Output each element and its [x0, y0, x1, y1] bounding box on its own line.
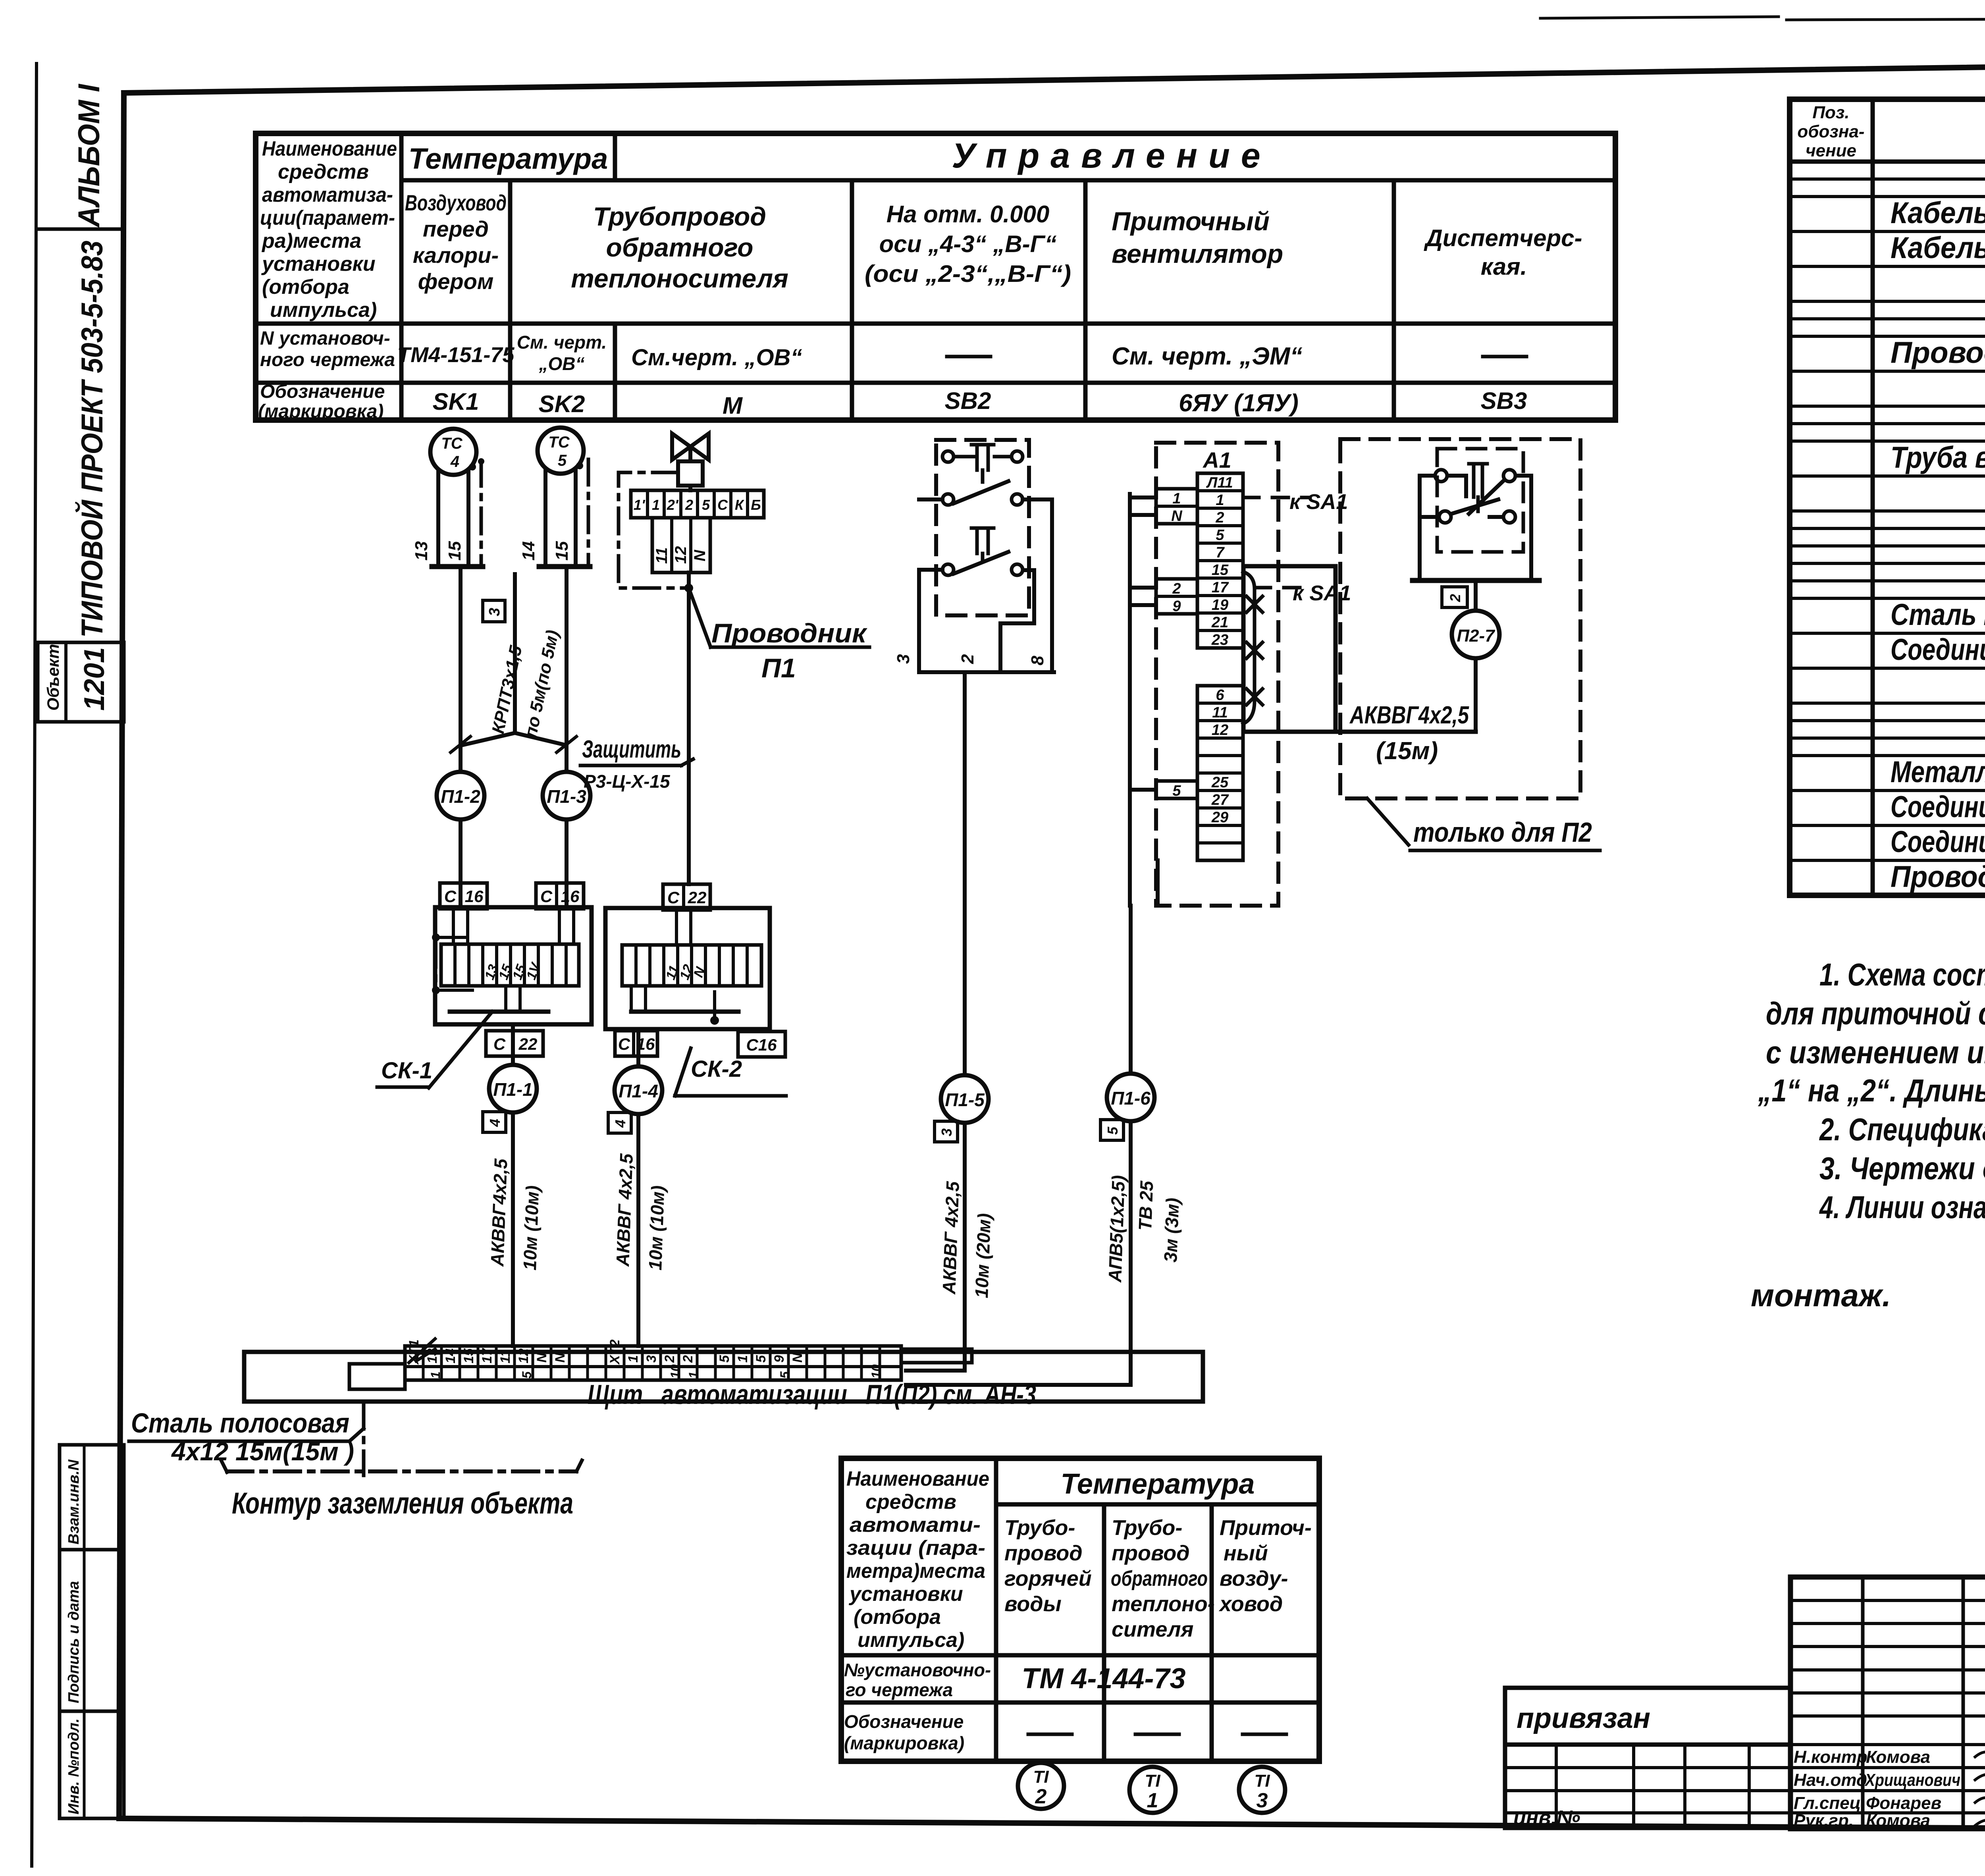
svg-text:11: 11	[653, 547, 671, 564]
svg-text:15: 15	[461, 1348, 476, 1363]
cable P1-1 to panel	[483, 1112, 543, 1346]
svg-text:Трубо-: Трубо-	[1004, 1516, 1075, 1540]
svg-text:ции(парамет-: ции(парамет-	[260, 206, 395, 229]
svg-text:П1-6: П1-6	[1111, 1088, 1151, 1109]
svg-text:3: 3	[894, 654, 913, 664]
svg-text:N установоч-: N установоч-	[260, 328, 390, 349]
svg-text:СК-1: СК-1	[381, 1058, 432, 1084]
svg-text:АЛЬБОМ I: АЛЬБОМ I	[72, 83, 106, 228]
svg-text:С: С	[618, 1035, 630, 1053]
svg-text:22: 22	[688, 888, 707, 907]
wires P1-2/P1-3 down to SK-1	[461, 819, 567, 907]
switch SB2 dashed box	[936, 440, 1029, 615]
svg-text:зации (пара-: зации (пара-	[846, 1537, 985, 1560]
svg-text:ТИПОВОЙ ПРОЕКТ 503-5-5.83: ТИПОВОЙ ПРОЕКТ 503-5-5.83	[75, 241, 109, 638]
cable P1-4 to panel	[608, 1112, 668, 1346]
svg-text:1: 1	[1216, 492, 1224, 509]
svg-text:П1-2: П1-2	[441, 786, 480, 807]
svg-text:2: 2	[958, 654, 977, 664]
svg-text:П1-4: П1-4	[619, 1081, 658, 1101]
svg-text:АКВВГ 4х2,5: АКВВГ 4х2,5	[939, 1180, 963, 1295]
svg-text:Комова: Комова	[1866, 1747, 1930, 1767]
svg-text:2. Спецификация дана для 2-: 2. Спецификация дана для 2-х систем.	[1819, 1112, 1985, 1147]
svg-text:9: 9	[1172, 598, 1181, 615]
tag C22 below SK-1	[486, 1031, 543, 1056]
svg-text:См. черт. „ЭМ“: См. черт. „ЭМ“	[1112, 343, 1303, 370]
cable KRPT vertical with Y split	[462, 574, 567, 745]
wire SB2 to P1-5	[963, 672, 967, 1075]
svg-text:К: К	[735, 497, 745, 513]
svg-text:2': 2'	[667, 497, 679, 513]
svg-text:обратного: обратного	[606, 233, 754, 262]
svg-text:Сталь полосовая 4х12 ГОСТ 103-: Сталь полосовая 4х12 ГОСТ 103-76	[1891, 598, 1985, 632]
svg-text:Температура: Температура	[1061, 1468, 1255, 1500]
svg-text:ТI: ТI	[1254, 1771, 1270, 1791]
svg-text:22: 22	[518, 1035, 538, 1053]
svg-text:11: 11	[498, 1350, 513, 1363]
svg-text:1: 1	[735, 1355, 750, 1363]
svg-text:15: 15	[1212, 562, 1229, 578]
svg-text:П1: П1	[761, 653, 796, 683]
svg-text:калори-: калори-	[413, 243, 499, 268]
svg-text:2: 2	[685, 497, 693, 513]
svg-text:(отбора: (отбора	[262, 276, 349, 299]
label tolko dlya P2	[1367, 798, 1600, 850]
svg-text:провод: провод	[1112, 1541, 1190, 1565]
A1 terminal strip lower	[1156, 686, 1243, 860]
svg-text:4: 4	[450, 453, 459, 470]
svg-text:ного чертежа: ного чертежа	[260, 349, 395, 370]
svg-text:5: 5	[520, 1371, 534, 1379]
svg-text:2: 2	[1172, 580, 1181, 597]
SB2 external wiring	[894, 499, 1054, 672]
svg-text:П1-1: П1-1	[493, 1079, 533, 1100]
svg-text:Проводник: Проводник	[711, 618, 868, 648]
svg-text:Кабель КРПТ3х1,5 ГОСТ 13497-: Кабель КРПТ3х1,5 ГОСТ 13497-77	[1891, 196, 1985, 230]
svg-text:чение: чение	[1806, 141, 1856, 160]
svg-text:Диспетчерс-: Диспетчерс-	[1423, 225, 1582, 251]
sensor TC4	[412, 429, 484, 567]
svg-text:Соединитель СМП-15х3/4“ТУ36.11: Соединитель СМП-15х3/4“ТУ36.1125-75	[1891, 825, 1985, 859]
svg-text:10: 10	[869, 1364, 883, 1379]
valve terminal strip	[631, 490, 764, 573]
svg-text:4. Линии означают:: 4. Линии означают:	[1819, 1190, 1985, 1225]
svg-text:Комова: Комова	[1866, 1811, 1930, 1830]
svg-text:АКВВГ4х2,5: АКВВГ4х2,5	[1349, 702, 1469, 729]
label SK-1 with leader	[377, 1012, 492, 1088]
svg-text:С: С	[717, 497, 728, 513]
svg-text:2: 2	[1447, 594, 1463, 602]
svg-text:Трубопровод: Трубопровод	[593, 202, 766, 231]
svg-text:Наименование: Наименование	[262, 137, 397, 160]
svg-text:3. Чертежи для справок: А-4: 3. Чертежи для справок: А-4	[1819, 1151, 1985, 1186]
label SK-2 with leader	[675, 1048, 786, 1096]
svg-text:Трубо-: Трубо-	[1112, 1516, 1182, 1540]
svg-text:(15м): (15м)	[1376, 737, 1438, 765]
privyazan box	[1505, 1688, 1790, 1745]
svg-text:15: 15	[552, 541, 572, 561]
svg-text:SB2: SB2	[945, 388, 991, 414]
svg-text:Обозначение: Обозначение	[260, 381, 385, 402]
svg-text:Подпись и дата: Подпись и дата	[66, 1581, 82, 1703]
svg-text:10м (10м): 10м (10м)	[645, 1185, 668, 1271]
cable P1-6 to panel	[906, 1120, 1183, 1385]
svg-text:Объект: Объект	[44, 644, 62, 711]
svg-text:горячей: горячей	[1004, 1567, 1092, 1591]
svg-text:Проводник П-1 ТУ36.1276-76: Проводник П-1 ТУ36.1276-76	[1891, 860, 1985, 894]
svg-text:ТС: ТС	[441, 435, 463, 452]
dashed link to k SA1 lower	[1255, 581, 1351, 605]
svg-text:ТI: ТI	[1145, 1771, 1160, 1791]
svg-text:5: 5	[1104, 1126, 1121, 1135]
svg-text:3: 3	[486, 608, 503, 616]
svg-text:воды: воды	[1004, 1592, 1062, 1616]
margin divider under ALBOM	[37, 228, 124, 231]
marker circle P1-3	[543, 772, 590, 819]
svg-text:Температура: Температура	[409, 142, 608, 175]
svg-text:13: 13	[412, 541, 431, 561]
svg-text:Сталь полосовая: Сталь полосовая	[131, 1407, 349, 1438]
marker circle P1-6	[1107, 1074, 1154, 1121]
svg-text:для приточной системы П2. С: для приточной системы П2. Схема аналогич…	[1766, 996, 1985, 1031]
svg-text:Наименование: Наименование	[846, 1467, 989, 1490]
svg-text:См. черт.: См. черт.	[517, 332, 607, 353]
svg-text:ра)места: ра)места	[261, 229, 361, 253]
demontage loop with X marks	[1243, 572, 1262, 724]
cable AKVVG 4x2.5 (15m)	[1336, 702, 1476, 765]
svg-text:6ЯУ (1ЯУ): 6ЯУ (1ЯУ)	[1179, 389, 1299, 417]
svg-text:Хрищанович: Хрищанович	[1864, 1770, 1960, 1790]
wire A1 to P1-6	[1129, 906, 1133, 1074]
svg-text:11: 11	[1212, 704, 1228, 721]
svg-text:перед: перед	[423, 216, 489, 241]
svg-text:ховод: ховод	[1218, 1592, 1283, 1616]
svg-text:Б: Б	[751, 497, 761, 513]
svg-text:С: С	[667, 888, 680, 907]
svg-text:кая.: кая.	[1481, 253, 1527, 280]
P2 switch	[1413, 449, 1539, 580]
svg-text:N: N	[691, 549, 709, 561]
svg-text:17: 17	[1212, 579, 1229, 596]
A1 left bus wire	[1130, 494, 1158, 906]
BOTTOM CENTER TABLE	[841, 1458, 1319, 1761]
svg-text:3: 3	[1257, 1789, 1268, 1812]
svg-text:1. Схема составленa для при: 1. Схема составленa для приточной систем…	[1819, 957, 1985, 992]
marker circle P1-5	[941, 1075, 989, 1123]
sheet edge top segments	[1540, 17, 1779, 18]
svg-text:оси „4-3“ „В-Г“: оси „4-3“ „В-Г“	[879, 231, 1057, 257]
svg-text:теплоно-: теплоно-	[1112, 1592, 1215, 1616]
svg-text:автомати-: автомати-	[850, 1514, 981, 1537]
svg-text:С: С	[540, 887, 553, 906]
junction box SK-1	[432, 907, 592, 1024]
svg-text:21: 21	[1211, 614, 1228, 631]
svg-text:Поз.: Поз.	[1812, 103, 1849, 122]
svg-text:27: 27	[1211, 792, 1229, 808]
wire P1 line valve to SK-2	[687, 573, 691, 884]
svg-text:2: 2	[680, 1355, 696, 1363]
svg-text:С: С	[493, 1035, 506, 1053]
svg-text:го чертежа: го чертежа	[846, 1679, 953, 1700]
svg-text:14: 14	[443, 1348, 458, 1363]
svg-text:Кабель АКВВГ ГОСТ 1508 78: Кабель АКВВГ ГОСТ 1508 78	[1891, 231, 1985, 265]
controller A1 dashed box	[1156, 443, 1278, 906]
svg-text:АКВВГ 4х2,5: АКВВГ 4х2,5	[612, 1153, 637, 1267]
svg-text:возду-: возду-	[1220, 1567, 1288, 1591]
svg-text:Фонарев: Фонарев	[1866, 1793, 1941, 1813]
svg-text:Р3-Ц-Х-15: Р3-Ц-Х-15	[584, 771, 671, 792]
svg-text:„ОВ“: „ОВ“	[539, 353, 585, 374]
svg-text:Защитить: Защитить	[582, 736, 681, 763]
svg-text:SK2: SK2	[539, 391, 585, 417]
tag C16 on P1-2 wire	[440, 883, 487, 909]
svg-text:Воздуховод: Воздуховод	[405, 190, 507, 215]
svg-text:инв.№: инв.№	[1513, 1807, 1580, 1830]
squiggle signatures	[1975, 1752, 1985, 1830]
svg-text:ХТ2: ХТ2	[607, 1340, 622, 1365]
svg-text:АПВ5(1х2,5): АПВ5(1х2,5)	[1104, 1175, 1129, 1283]
svg-text:С16: С16	[746, 1035, 777, 1054]
svg-text:5: 5	[717, 1355, 732, 1363]
svg-text:монтаж.: монтаж.	[1751, 1278, 1891, 1313]
svg-text:На отм. 0.000: На отм. 0.000	[887, 201, 1049, 228]
svg-text:5: 5	[1216, 527, 1224, 544]
svg-text:обозна-: обозна-	[1797, 122, 1864, 141]
svg-text:фером: фером	[418, 269, 494, 294]
RIGHT SPECIFICATION TABLE	[1790, 99, 1985, 895]
svg-text:Соединитель СМ т-15х20ТУ36.112: Соединитель СМ т-15х20ТУ36.1125-75	[1891, 790, 1985, 824]
TOP-LEFT SIGNAL TABLE	[256, 133, 1615, 422]
svg-text:16: 16	[561, 887, 580, 906]
svg-text:5: 5	[1172, 783, 1181, 799]
svg-text:(маркировка): (маркировка)	[844, 1733, 964, 1753]
svg-text:5: 5	[558, 452, 567, 469]
marker circle P1-4	[615, 1066, 662, 1114]
LEFT MARGIN COLUMN	[37, 83, 124, 1818]
signatures grid	[1790, 1577, 1985, 1829]
svg-text:1201: 1201	[79, 647, 110, 711]
svg-text:провод: провод	[1004, 1541, 1083, 1565]
valve shield dash-dot loop	[619, 472, 693, 592]
svg-text:Приточ-: Приточ-	[1220, 1516, 1312, 1540]
svg-text:1: 1	[652, 497, 660, 513]
svg-text:Гл.спец: Гл.спец	[1794, 1793, 1861, 1813]
svg-text:Рук.гр.: Рук.гр.	[1794, 1811, 1854, 1830]
TITLE BLOCK	[1505, 1577, 1985, 1832]
svg-text:19: 19	[1212, 597, 1228, 613]
svg-text:ТМ4-151-75: ТМ4-151-75	[397, 343, 515, 367]
svg-text:5: 5	[754, 1355, 769, 1363]
svg-text:SB3: SB3	[1481, 388, 1527, 414]
sheet edge left line	[32, 64, 37, 1866]
label Zashchitit	[580, 736, 693, 792]
svg-text:1: 1	[428, 1371, 443, 1379]
svg-text:Л11: Л11	[1206, 474, 1233, 491]
A1 terminal strip upper	[1156, 473, 1243, 648]
svg-text:12: 12	[672, 546, 690, 564]
svg-text:4: 4	[487, 1119, 503, 1127]
TI instrument circles	[1018, 1763, 1285, 1813]
svg-text:4х12 15м(15м ): 4х12 15м(15м )	[171, 1437, 354, 1466]
svg-text:5: 5	[778, 1371, 792, 1379]
panel terminal strip XT1/XT2	[349, 1339, 972, 1389]
svg-text:Приточный: Приточный	[1112, 206, 1270, 236]
svg-text:только для П2: только для П2	[1413, 817, 1592, 848]
svg-text:с изменением индекса в мар: с изменением индекса в маркировке кабеля…	[1766, 1035, 1985, 1070]
svg-text:установки: установки	[261, 253, 376, 276]
svg-text:М: М	[723, 392, 743, 419]
dashed link to k SA1 upper	[1243, 490, 1348, 514]
valve P1	[672, 434, 709, 490]
wire SK-1 to P1-1	[511, 1024, 515, 1065]
sensor drop wires	[451, 567, 576, 772]
svg-text:теплоносителя: теплоносителя	[571, 264, 788, 293]
svg-text:4: 4	[612, 1120, 628, 1128]
svg-text:3м (3м): 3м (3м)	[1160, 1197, 1183, 1263]
drawing frame border	[124, 59, 1985, 93]
svg-text:12: 12	[516, 1348, 531, 1363]
svg-text:N: N	[1171, 508, 1183, 524]
svg-text:Взам.инв.N: Взам.инв.N	[66, 1459, 82, 1544]
svg-text:средств: средств	[278, 160, 369, 183]
sensor TC5	[519, 428, 590, 567]
junction box at A1 output	[1243, 566, 1336, 732]
svg-text:1': 1'	[634, 497, 646, 513]
svg-text:23: 23	[1211, 632, 1228, 648]
tag C16 below SK-2	[615, 1031, 657, 1056]
svg-text:8: 8	[1028, 656, 1047, 665]
svg-text:10м (10м): 10м (10м)	[519, 1185, 543, 1271]
svg-text:Провод АПВ ГОСТ 6323-79: Провод АПВ ГОСТ 6323-79	[1891, 336, 1985, 370]
svg-text:10: 10	[668, 1364, 682, 1379]
svg-text:Металлорукав Р3-Ц-Х-15 ТУ22-21: Металлорукав Р3-Ц-Х-15 ТУ22-2173-71	[1891, 755, 1985, 789]
svg-text:См.черт. „ОВ“: См.черт. „ОВ“	[631, 345, 802, 370]
svg-text:сителя: сителя	[1112, 1618, 1193, 1641]
svg-text:обратного: обратного	[1111, 1567, 1208, 1591]
svg-text:А1: А1	[1202, 447, 1231, 472]
svg-text:автоматиза-: автоматиза-	[262, 183, 393, 206]
svg-text:N: N	[790, 1352, 805, 1363]
NOTES TEXT BLOCK	[1751, 957, 1985, 1313]
svg-text:2: 2	[1035, 1785, 1047, 1808]
svg-text:N: N	[553, 1352, 568, 1363]
svg-text:1: 1	[1172, 490, 1181, 507]
svg-text:Щит автоматизации П1(П2) с: Щит автоматизации П1(П2) см. АН-3	[588, 1379, 1036, 1410]
svg-text:N: N	[534, 1352, 549, 1363]
svg-text:10м (20м): 10м (20м)	[971, 1213, 994, 1298]
svg-text:Труба винипластовая МН 1427-61: Труба винипластовая МН 1427-61	[1891, 441, 1985, 474]
svg-text:Н.контр: Н.контр	[1794, 1747, 1867, 1767]
svg-text:Контур заземления объекта: Контур заземления объекта	[232, 1487, 573, 1520]
ground strip labels	[129, 1404, 364, 1475]
svg-text:вентилятор: вентилятор	[1112, 239, 1283, 268]
svg-text:6: 6	[1216, 687, 1224, 704]
P2-7 marker with tag 2	[1442, 580, 1499, 732]
svg-text:№установочно-: №установочно-	[844, 1660, 991, 1680]
svg-text:ТВ 25: ТВ 25	[1135, 1180, 1157, 1231]
P2 only dashed box	[1340, 439, 1580, 798]
object 1201 box	[38, 642, 124, 722]
svg-text:Управление: Управление	[952, 136, 1271, 175]
svg-text:7: 7	[1216, 544, 1225, 561]
svg-text:установки: установки	[848, 1583, 963, 1606]
svg-text:16: 16	[465, 887, 484, 906]
stamp boxes bottom left	[60, 1445, 124, 1550]
automation panel box	[244, 1352, 1203, 1410]
tag C16 right below SK-2	[738, 1032, 785, 1057]
tag C22 on P1 wire	[663, 884, 710, 910]
svg-text:14: 14	[519, 541, 538, 561]
svg-text:импульса): импульса)	[270, 299, 377, 322]
svg-text:9: 9	[772, 1355, 787, 1363]
svg-text:5: 5	[702, 497, 710, 513]
svg-text:15: 15	[445, 541, 464, 561]
svg-text:12: 12	[1212, 722, 1228, 738]
svg-text:П1-5: П1-5	[945, 1089, 985, 1110]
junction box SK-2	[605, 908, 770, 1029]
svg-text:метра)места: метра)места	[846, 1560, 985, 1583]
svg-text:С: С	[444, 887, 457, 906]
svg-text:СК-2: СК-2	[691, 1056, 742, 1082]
svg-text:к SA1: к SA1	[1293, 581, 1351, 605]
ground contour dash-dot line	[222, 1460, 582, 1520]
svg-text:3: 3	[644, 1355, 659, 1363]
svg-text:(оси „2-3“,„В-Г“): (оси „2-3“,„В-Г“)	[865, 260, 1071, 287]
svg-text:Нач.отд: Нач.отд	[1794, 1770, 1867, 1790]
label Provodnik P1	[689, 588, 869, 683]
svg-text:средств: средств	[865, 1490, 956, 1514]
svg-text:импульса): импульса)	[858, 1629, 964, 1652]
svg-text:2: 2	[1215, 509, 1224, 526]
svg-text:Инв. №подл.: Инв. №подл.	[66, 1718, 82, 1814]
svg-text:(маркировка): (маркировка)	[258, 401, 384, 422]
svg-text:3: 3	[939, 1128, 955, 1136]
svg-text:ный: ный	[1224, 1541, 1268, 1565]
svg-text:„1“ на „2“. Длины кабеля дл: „1“ на „2“. Длины кабеля для П2 даны в с…	[1758, 1073, 1985, 1108]
svg-text:ТМ 4-144-73: ТМ 4-144-73	[1021, 1663, 1185, 1695]
svg-text:1: 1	[626, 1355, 641, 1363]
marker circle P1-2	[437, 772, 484, 819]
svg-text:17: 17	[480, 1348, 495, 1363]
marker circle P1-1	[489, 1065, 537, 1112]
svg-text:SK1: SK1	[433, 388, 479, 415]
tag C16 on P1-3 wire	[536, 883, 584, 909]
svg-text:П1-3: П1-3	[547, 786, 586, 807]
svg-text:1: 1	[686, 1371, 701, 1379]
svg-text:Обозначение: Обозначение	[844, 1711, 964, 1732]
svg-text:(отбора: (отбора	[854, 1606, 941, 1629]
svg-text:ТС: ТС	[548, 434, 570, 451]
svg-text:1: 1	[1147, 1789, 1158, 1812]
svg-text:привязан: привязан	[1517, 1702, 1650, 1734]
svg-text:АКВВГ4х2,5: АКВВГ4х2,5	[487, 1158, 511, 1267]
wire SK-2 to P1-4	[636, 1029, 640, 1066]
svg-text:25: 25	[1211, 774, 1229, 791]
svg-text:2: 2	[662, 1355, 677, 1363]
cable P1-5 to panel	[906, 1121, 994, 1371]
svg-text:Соединительная коробка ТУ36.17: Соединительная коробка ТУ36.1753-75	[1891, 633, 1985, 667]
svg-text:П2-7: П2-7	[1457, 626, 1495, 646]
svg-text:ТI: ТI	[1033, 1767, 1049, 1787]
svg-text:29: 29	[1211, 809, 1228, 826]
